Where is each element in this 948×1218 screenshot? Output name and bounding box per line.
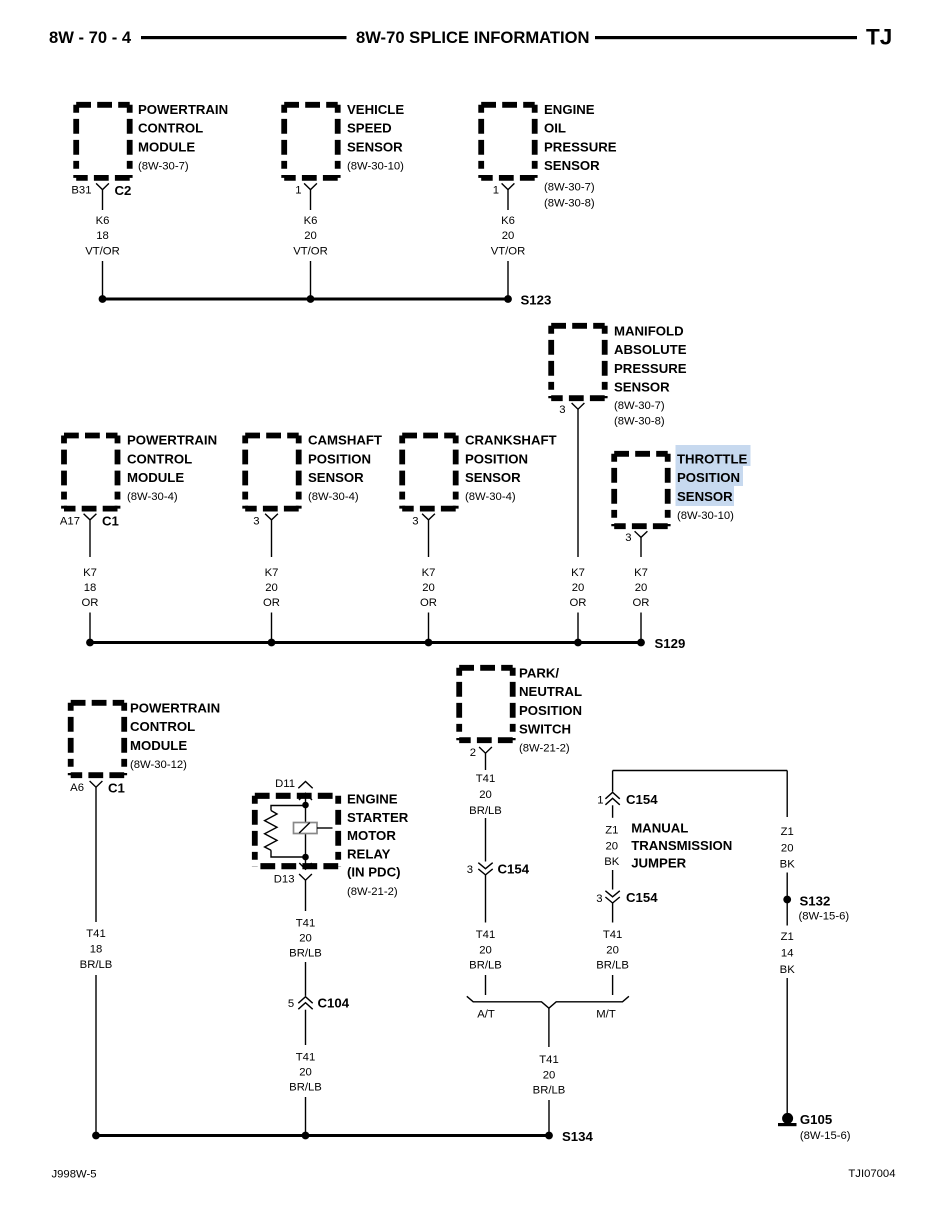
wire T41 20 BR/LB (C154 to A/T merge) [469,875,502,995]
component box: throttle position sensor [614,454,668,526]
svg-text:BR/LB: BR/LB [596,960,629,972]
svg-text:S134: S134 [562,1129,593,1144]
svg-text:ABSOLUTE: ABSOLUTE [614,342,687,357]
svg-text:(8W-30-7): (8W-30-7) [544,182,595,194]
wire K6 20 VT/OR (oil pressure sensor to S123) [491,190,526,299]
svg-text:1: 1 [597,795,603,807]
svg-text:SWITCH: SWITCH [519,722,571,737]
svg-text:BR/LB: BR/LB [289,1082,322,1094]
svg-text:20: 20 [781,843,794,855]
svg-text:OR: OR [82,597,99,609]
label: park/neutral position switch [519,666,582,755]
svg-text:T41: T41 [296,918,315,930]
svg-text:PARK/: PARK/ [519,666,559,681]
pin 3 of throttle position sensor [625,531,647,544]
svg-text:CONTROL: CONTROL [130,719,195,734]
svg-text:Z1: Z1 [781,931,794,943]
label: camshaft position sensor [308,433,382,503]
svg-text:RELAY: RELAY [347,846,391,861]
label A/T [477,1009,495,1021]
label: engine starter motor relay [347,792,409,899]
svg-text:BR/LB: BR/LB [289,948,322,960]
svg-text:OIL: OIL [544,121,566,136]
wire T41 18 BR/LB (PCM to S134) [80,787,113,1135]
pin 2 of park/neutral position switch [470,747,492,759]
svg-text:3: 3 [559,404,565,416]
svg-text:(8W-21-2): (8W-21-2) [347,886,398,898]
svg-text:(8W-30-10): (8W-30-10) [347,160,404,172]
splice S129 bus wire [90,641,641,644]
svg-text:T41: T41 [86,928,105,940]
wire: jumper top run from C154 to ground branch [613,771,788,792]
component box: park/neutral position switch [459,668,513,740]
svg-text:2: 2 [470,747,476,759]
junction dot PCM wire on S129 [86,639,94,647]
svg-text:20: 20 [265,582,278,594]
svg-text:(8W-30-8): (8W-30-8) [544,198,595,210]
svg-text:M/T: M/T [596,1009,616,1021]
svg-text:20: 20 [304,230,317,242]
pin 3 of MAP sensor [559,403,584,416]
svg-text:JUMPER: JUMPER [631,856,686,871]
relay coil junction dot top [302,802,309,809]
splice S134 bus wire [96,1134,549,1137]
page header title left [49,28,132,47]
footer drawing number right [848,1168,895,1180]
junction dot crankshaft wire on S129 [425,639,433,647]
connector box: powertrain control module (8W-30-12) [71,703,125,775]
wire T41 20 BR/LB (merge to S134) [533,1008,566,1135]
svg-text:STARTER: STARTER [347,810,409,825]
wire T41 20 BR/LB (PNP switch to C154) [469,753,502,861]
svg-text:MODULE: MODULE [130,738,187,753]
splice label S129 [655,636,686,651]
svg-text:20: 20 [422,582,435,594]
svg-text:TJI07004: TJI07004 [848,1168,895,1180]
relay coil resistor zigzag [265,811,277,851]
svg-text:A/T: A/T [477,1009,495,1021]
svg-text:D13: D13 [274,874,295,886]
svg-text:(8W-30-4): (8W-30-4) [465,491,516,503]
component box: camshaft position sensor [245,436,299,509]
pin D13 of relay [274,874,312,886]
svg-text:1: 1 [295,185,301,197]
svg-text:K7: K7 [265,567,279,579]
svg-text:TJ: TJ [866,25,892,50]
svg-text:C154: C154 [626,792,658,807]
svg-text:T41: T41 [476,929,495,941]
svg-text:18: 18 [84,582,97,594]
svg-text:B31: B31 [71,185,91,197]
connector C154 pin 3 (A/T side) [467,862,530,877]
svg-text:1: 1 [493,185,499,197]
svg-text:K7: K7 [83,567,97,579]
svg-text:PRESSURE: PRESSURE [544,139,617,154]
svg-text:VT/OR: VT/OR [293,246,328,258]
svg-text:3: 3 [596,893,602,905]
svg-text:POWERTRAIN: POWERTRAIN [138,102,228,117]
svg-text:MANUAL: MANUAL [631,821,688,836]
svg-text:K7: K7 [634,567,648,579]
svg-text:BR/LB: BR/LB [80,959,113,971]
svg-text:OR: OR [263,597,280,609]
component box: engine oil pressure sensor (8W-30-7)(8W-30-8) [481,105,535,178]
connector C104 pin 5 [288,996,350,1011]
relay terminal arrow at bottom [299,863,311,869]
relay internal vertical wire D11 to D13 [305,793,307,869]
wire K7 20 OR (throttle sensor to S129) [633,538,650,643]
svg-text:8W-70 SPLICE INFORMATION: 8W-70 SPLICE INFORMATION [356,28,590,47]
svg-text:SENSOR: SENSOR [677,489,733,504]
svg-text:S123: S123 [521,293,552,308]
svg-text:(8W-21-2): (8W-21-2) [519,743,570,755]
svg-text:C154: C154 [498,862,530,877]
svg-text:BR/LB: BR/LB [469,805,502,817]
svg-text:C1: C1 [102,514,119,529]
svg-text:3: 3 [253,515,259,527]
svg-text:5: 5 [288,998,294,1010]
svg-text:POSITION: POSITION [519,703,582,718]
svg-text:(IN PDC): (IN PDC) [347,865,400,880]
connector box: powertrain control module (8W-30-4) [64,436,118,509]
wire T41 20 BR/LB (relay D13 to C104) [289,880,322,996]
pin D11 of relay [275,778,313,790]
wire T41 20 BR/LB (jumper to M/T merge) [596,903,629,995]
component box: vehicle speed sensor (8W-30-10) [284,105,338,178]
svg-text:ENGINE: ENGINE [544,102,595,117]
svg-text:20: 20 [572,582,585,594]
wire Z1 20 BK (jumper left leg) [604,805,620,889]
junction dot at oil pressure wire on S123 [504,295,512,303]
junction dot throttle wire on S129 [637,639,645,647]
header rule left [141,36,347,39]
wire T41 20 BR/LB (C104 to S134) [289,1010,322,1136]
ground G105 symbol [778,1113,797,1126]
page header vehicle code TJ [866,25,892,50]
relay contact (switch) symbol [294,823,333,834]
svg-text:NEUTRAL: NEUTRAL [519,684,582,699]
splice S123 bus wire [103,298,509,301]
svg-text:D11: D11 [275,778,295,790]
svg-text:POWERTRAIN: POWERTRAIN [127,433,217,448]
svg-text:SENSOR: SENSOR [308,470,364,485]
pin B31 connector C2 [71,183,131,198]
label: powertrain control module (8W-30-7) [138,102,228,172]
svg-text:20: 20 [635,582,648,594]
svg-text:CRANKSHAFT: CRANKSHAFT [465,433,557,448]
svg-text:MOTOR: MOTOR [347,828,396,843]
svg-text:MANIFOLD: MANIFOLD [614,324,684,339]
junction dot PCM wire on S134 [92,1132,100,1140]
svg-text:SENSOR: SENSOR [465,470,521,485]
svg-text:SENSOR: SENSOR [347,139,403,154]
label: manual transmission jumper [631,821,732,871]
svg-text:SPEED: SPEED [347,121,392,136]
svg-text:20: 20 [543,1070,556,1082]
connector C154 pin 1 (jumper) [597,792,658,807]
svg-text:(8W-30-4): (8W-30-4) [308,491,359,503]
component box: manifold absolute pressure sensor [551,326,605,398]
highlight behind THROTTLE POSITION SENSOR text [676,445,751,506]
svg-text:(8W-30-7): (8W-30-7) [614,400,665,412]
relay coil junction dot bottom [302,854,309,861]
svg-text:MODULE: MODULE [138,139,195,154]
svg-text:(8W-30-10): (8W-30-10) [677,510,734,522]
svg-text:OR: OR [420,597,437,609]
svg-text:VT/OR: VT/OR [491,246,526,258]
svg-text:CAMSHAFT: CAMSHAFT [308,433,382,448]
svg-text:VEHICLE: VEHICLE [347,102,404,117]
svg-text:POWERTRAIN: POWERTRAIN [130,701,220,716]
label: powertrain control module (8W-30-12) [130,701,220,771]
splice S132 [783,894,849,923]
svg-text:18: 18 [96,230,109,242]
svg-text:A6: A6 [70,782,84,794]
svg-text:BK: BK [780,859,796,871]
footer sheet code left [52,1169,97,1181]
svg-text:OR: OR [570,597,587,609]
label M/T [596,1009,616,1021]
wire Z1 14 BK (S132 to ground G105) [780,900,796,1114]
svg-text:VT/OR: VT/OR [85,246,120,258]
svg-text:C2: C2 [115,183,132,198]
connector box: powertrain control module (8W-30-7) [76,105,130,178]
svg-text:20: 20 [606,841,619,853]
svg-text:K7: K7 [422,567,436,579]
junction dot merge wire on S134 [545,1132,553,1140]
label: manifold absolute pressure sensor [614,324,687,428]
svg-text:POSITION: POSITION [677,470,740,485]
svg-text:(8W-15-6): (8W-15-6) [799,911,850,923]
svg-text:MODULE: MODULE [127,470,184,485]
svg-text:CONTROL: CONTROL [127,451,192,466]
label: throttle position sensor [677,452,748,522]
wire K7 18 OR (PCM C1 to S129) [82,520,99,642]
svg-text:SENSOR: SENSOR [544,158,600,173]
junction dot MAP wire on S129 [574,639,582,647]
svg-text:TRANSMISSION: TRANSMISSION [631,838,732,853]
wire K7 20 OR (crankshaft sensor to S129) [420,520,437,642]
svg-text:Z1: Z1 [605,825,618,837]
svg-text:3: 3 [412,515,418,527]
relay coil top lead [271,806,306,811]
svg-text:C1: C1 [108,780,125,795]
svg-text:T41: T41 [296,1052,315,1064]
svg-text:BK: BK [780,964,796,976]
svg-text:(8W-30-4): (8W-30-4) [127,491,178,503]
wire Z1 20 BK (jumper run down to S132) [780,771,796,900]
merge brace joining A/T and M/T wires [467,996,629,1008]
svg-text:20: 20 [606,945,619,957]
component box: crankshaft position sensor [402,436,456,509]
relay box: engine starter motor relay (in PDC) [255,796,338,866]
svg-text:8W - 70 - 4: 8W - 70 - 4 [49,28,132,47]
svg-text:K7: K7 [571,567,585,579]
junction dot relay wire on S134 [302,1132,310,1140]
pin A6 connector C1 of PCM [70,780,125,795]
svg-text:3: 3 [625,532,631,544]
connector C154 pin 3 (jumper) [596,890,658,905]
svg-text:POSITION: POSITION [465,451,528,466]
pin A17 connector C1 [60,514,119,529]
junction dot camshaft wire on S129 [268,639,276,647]
header rule right [595,36,857,39]
svg-text:K6: K6 [501,215,515,227]
svg-text:J998W-5: J998W-5 [52,1169,97,1181]
svg-text:20: 20 [299,1067,312,1079]
svg-text:G105: G105 [800,1112,832,1127]
relay terminal arrow at top (male pin into relay) [299,793,312,800]
svg-text:CONTROL: CONTROL [138,121,203,136]
svg-text:C104: C104 [318,996,350,1011]
pin 3 of camshaft position sensor [253,514,278,528]
svg-text:S129: S129 [655,636,686,651]
label: crankshaft position sensor [465,433,557,503]
pin 3 of crankshaft position sensor [412,514,435,528]
splice label S123 [521,293,552,308]
relay coil bottom lead [271,850,306,857]
svg-text:(8W-30-12): (8W-30-12) [130,759,187,771]
wire K7 20 OR (MAP sensor to S129) [570,409,587,642]
svg-text:A17: A17 [60,515,80,527]
label: engine oil pressure sensor [544,102,617,210]
svg-text:20: 20 [479,945,492,957]
pin 1 of engine oil pressure sensor [493,183,515,196]
wire K6 20 VT/OR (VSS to S123) [293,190,328,299]
svg-text:OR: OR [633,597,650,609]
svg-text:K6: K6 [304,215,318,227]
svg-text:(8W-15-6): (8W-15-6) [800,1130,851,1142]
svg-text:(8W-30-8): (8W-30-8) [614,416,665,428]
wire K6 18 VT/OR (PCM C2 to S123) [85,190,120,299]
svg-text:ENGINE: ENGINE [347,792,398,807]
label: vehicle speed sensor (8W-30-10) [347,102,404,172]
svg-text:C154: C154 [626,890,658,905]
junction dot at VSS wire on S123 [307,295,315,303]
junction dot at PCM wire on S123 [99,295,107,303]
svg-text:T41: T41 [476,773,495,785]
svg-text:BK: BK [604,856,620,868]
svg-text:T41: T41 [539,1054,558,1066]
svg-text:3: 3 [467,864,473,876]
svg-text:20: 20 [502,230,515,242]
pin 1 of vehicle speed sensor [295,183,317,196]
svg-text:T41: T41 [603,929,622,941]
svg-text:18: 18 [90,944,103,956]
svg-text:POSITION: POSITION [308,451,371,466]
svg-text:(8W-30-7): (8W-30-7) [138,160,189,172]
splice label S134 [562,1129,593,1144]
wire K7 20 OR (camshaft sensor to S129) [263,520,280,642]
svg-text:SENSOR: SENSOR [614,380,670,395]
svg-text:Z1: Z1 [781,826,794,838]
svg-text:K6: K6 [96,215,110,227]
svg-text:BR/LB: BR/LB [533,1085,566,1097]
ground label G105 [800,1112,851,1142]
svg-text:BR/LB: BR/LB [469,960,502,972]
svg-text:14: 14 [781,948,794,960]
svg-text:PRESSURE: PRESSURE [614,361,687,376]
page header title center [356,28,590,47]
svg-text:THROTTLE: THROTTLE [677,452,748,467]
svg-text:S132: S132 [800,894,831,909]
label: powertrain control module (8W-30-4) [127,433,217,503]
svg-text:20: 20 [299,933,312,945]
svg-text:20: 20 [479,789,492,801]
